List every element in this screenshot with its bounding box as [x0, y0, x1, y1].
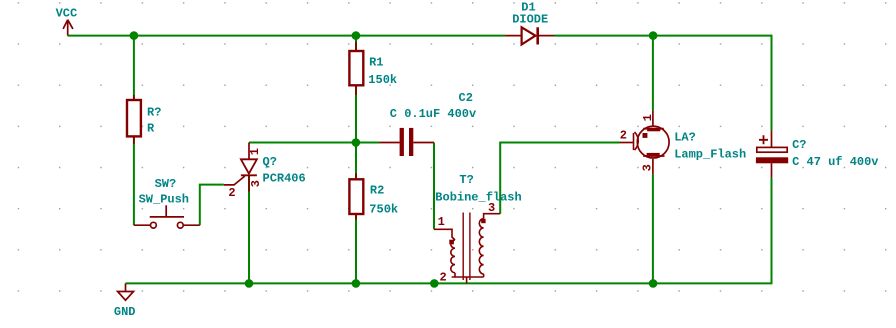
svg-text:GND: GND [114, 305, 136, 319]
junction at R2 bottom [352, 279, 361, 288]
power symbol VCC [63, 20, 73, 36]
svg-text:C?: C? [792, 138, 806, 152]
wire: C2 right terminal down to T? pin 1 [433, 143, 435, 230]
wire: R1 column from top rail to middle node [355, 36, 357, 143]
svg-text:VCC: VCC [56, 6, 78, 20]
junction at R1 top [352, 31, 361, 40]
svg-text:R1: R1 [369, 56, 383, 70]
resistor R1 [349, 42, 363, 95]
wire: R2 column from middle node to bottom rail [355, 143, 357, 284]
svg-text:SW_Push: SW_Push [139, 192, 189, 206]
svg-text:SW?: SW? [155, 177, 177, 191]
junction at R? top [130, 31, 139, 40]
svg-text:R: R [147, 121, 155, 135]
svg-text:LA?: LA? [674, 131, 696, 145]
resistor R? [127, 95, 141, 144]
junction at lamp pin 3 bottom [649, 279, 658, 288]
diode D1 [506, 27, 555, 44]
svg-text:1: 1 [438, 215, 445, 229]
svg-text:C2: C2 [459, 91, 473, 105]
svg-text:3: 3 [249, 180, 263, 187]
ground [118, 283, 134, 300]
svg-text:DIODE: DIODE [512, 13, 548, 27]
polarity dot primary of T? [449, 240, 454, 245]
svg-text:Q?: Q? [263, 155, 277, 169]
junction at R1/R2/C2 node [352, 138, 361, 147]
svg-text:R2: R2 [370, 184, 384, 198]
wire: top rail right of D1 to right corner [554, 36, 772, 131]
resistor R2 [349, 173, 363, 220]
svg-text:R?: R? [147, 106, 161, 120]
junction at lamp pin 1 top [649, 31, 658, 40]
svg-text:C 0.1uF 400v: C 0.1uF 400v [390, 107, 476, 121]
svg-text:750k: 750k [369, 203, 398, 217]
switch SW? [134, 205, 200, 228]
svg-text:Lamp_Flash: Lamp_Flash [674, 148, 746, 162]
svg-text:150k: 150k [368, 73, 397, 87]
wire: lamp pin 2 to T? pin 3 [500, 143, 620, 214]
wire: SCR cathode to bottom rail [248, 176, 250, 283]
thyristor Q1 [224, 143, 257, 192]
polarity dot secondary of T? [481, 219, 485, 223]
svg-text:1: 1 [248, 148, 262, 155]
svg-text:PCR406: PCR406 [263, 171, 306, 185]
svg-text:T?: T? [459, 173, 473, 187]
capacitor C? [756, 131, 788, 178]
capacitor C2 [380, 128, 435, 156]
wire: SCR anode to R1/R2 node to C2 [249, 142, 380, 144]
transformer T? [434, 213, 500, 284]
wire: switch to SCR gate [200, 185, 224, 226]
svg-text:2: 2 [620, 129, 627, 143]
wire: VCC top rail left of D1 [68, 35, 506, 37]
lamp LA? [620, 110, 669, 174]
wire: lamp pin 3 to bottom rail [652, 174, 654, 283]
junction at SCR cathode bottom [245, 279, 254, 288]
svg-text:C 47 uf 400v: C 47 uf 400v [792, 155, 878, 169]
svg-text:2: 2 [440, 270, 447, 284]
wire: right column below C? to bottom rail [771, 178, 773, 284]
junction at T? pin 2 [430, 279, 439, 288]
svg-text:2: 2 [228, 186, 235, 200]
wire: top rail to lamp pin 1 [652, 36, 654, 111]
svg-text:3: 3 [641, 164, 655, 171]
wire: GND bottom rail [126, 282, 773, 284]
svg-text:Bobine_flash: Bobine_flash [435, 191, 521, 205]
svg-text:1: 1 [641, 114, 655, 121]
wire: left column through R? to switch [133, 36, 135, 226]
